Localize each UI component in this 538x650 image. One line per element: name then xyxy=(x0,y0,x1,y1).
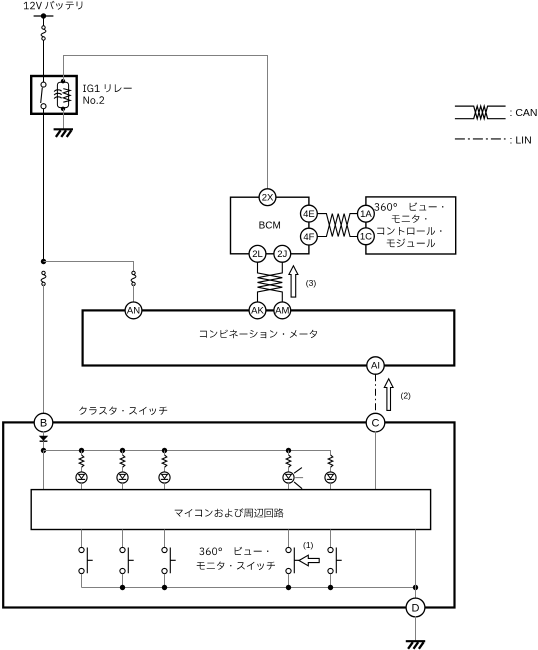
node junction lamp column 3 xyxy=(162,448,167,453)
pin AI xyxy=(367,357,384,374)
wire to B xyxy=(43,284,45,414)
label cluster switch xyxy=(79,407,167,416)
wire relay coil to ground xyxy=(63,109,65,129)
lamp LED2 xyxy=(117,472,128,483)
svg-text:: LIN: : LIN xyxy=(510,134,532,146)
wire to AN xyxy=(133,284,135,302)
wire xyxy=(122,483,124,490)
lamp LED4 (illumination) xyxy=(283,472,294,483)
svg-text:4E: 4E xyxy=(303,209,315,220)
wire B to diode xyxy=(43,431,45,436)
wire microcomputer to D xyxy=(415,530,417,599)
node bus junction xyxy=(120,585,125,590)
node bus junction xyxy=(328,585,333,590)
legend CAN twisted pair symbol xyxy=(455,106,506,119)
label combination meter xyxy=(200,330,317,339)
ground (cluster switch) xyxy=(406,640,425,642)
360 view monitor control module box xyxy=(366,197,456,254)
wire xyxy=(81,483,83,490)
wire LIN AI-C (dash-dot) xyxy=(375,374,377,413)
pin AK xyxy=(249,302,266,319)
wire xyxy=(330,530,332,548)
wire ground bus xyxy=(82,587,416,589)
node junction (feed split) xyxy=(41,259,46,264)
resistor R2 xyxy=(120,455,125,467)
svg-text:1A: 1A xyxy=(360,209,372,220)
wire CAN twisted pair 2J-AM xyxy=(258,262,283,302)
resistor R3 xyxy=(162,455,167,467)
svg-text:2X: 2X xyxy=(262,192,274,203)
arrow (2) xyxy=(384,379,393,411)
node junction lamp column 4 xyxy=(286,448,291,453)
wire xyxy=(164,483,166,490)
arrow (1) xyxy=(299,555,319,566)
wire relay contact down to junction xyxy=(43,114,45,262)
wire xyxy=(288,483,290,490)
wire xyxy=(288,451,290,455)
wire xyxy=(288,530,290,548)
svg-text:4F: 4F xyxy=(303,232,314,243)
microcomputer and peripheral circuit box xyxy=(31,490,430,530)
lamp LED4 light rays xyxy=(294,468,302,474)
diode D1 xyxy=(40,436,48,440)
svg-text:1C: 1C xyxy=(360,232,372,243)
wire xyxy=(81,467,83,472)
wire B column into microcomputer xyxy=(43,451,45,490)
wire CAN twisted pair 4E-1A xyxy=(317,214,357,237)
svg-text:BCM: BCM xyxy=(259,221,281,232)
node bus junction xyxy=(413,585,418,590)
pin AM xyxy=(274,302,291,319)
pin C xyxy=(366,413,385,432)
wire xyxy=(164,451,166,455)
pin D xyxy=(406,598,425,617)
label No.2 xyxy=(84,96,105,104)
pin 2X xyxy=(259,189,276,206)
lamp LED5 xyxy=(325,472,336,483)
wire xyxy=(122,467,124,472)
wire xyxy=(81,530,83,548)
pin B xyxy=(34,413,53,432)
wire CAN twisted pair 2L-AK xyxy=(258,262,283,302)
wire xyxy=(122,451,124,455)
relay contact (switch) xyxy=(43,76,45,82)
cluster switch box xyxy=(3,422,454,607)
wire xyxy=(330,574,332,588)
relay coil with resistor xyxy=(61,79,65,83)
pin 4E xyxy=(301,205,318,222)
lamp LED3 xyxy=(159,472,170,483)
svg-text:(2): (2) xyxy=(401,391,412,401)
ground (relay) xyxy=(54,128,73,130)
pin 1C xyxy=(358,228,375,245)
pin 4F xyxy=(301,228,318,245)
lamp LED1 xyxy=(76,472,87,483)
connector in-line (battery feed) xyxy=(42,26,45,29)
svg-text:B: B xyxy=(40,418,47,430)
wire D to ground xyxy=(415,616,417,641)
wire branch to AN xyxy=(44,262,134,272)
relay IG1 No.2 box xyxy=(31,76,76,114)
wire CAN twisted pair 4F-1C xyxy=(317,214,357,237)
label 360 view monitor control module xyxy=(374,202,443,210)
svg-text:2L: 2L xyxy=(252,249,263,260)
pin 1A xyxy=(358,205,375,222)
resistor R1 xyxy=(79,455,84,467)
wire relay coil to BCM 2X xyxy=(64,56,268,189)
label IG1 relay xyxy=(83,84,132,92)
svg-text:AK: AK xyxy=(251,306,264,317)
resistor R4 xyxy=(286,455,291,467)
wire xyxy=(164,574,166,588)
wire diode to junction xyxy=(43,441,45,450)
svg-text:AM: AM xyxy=(275,306,289,317)
svg-text:(1): (1) xyxy=(303,540,314,550)
resistor R5 xyxy=(328,455,333,467)
wire xyxy=(330,483,332,490)
svg-text:C: C xyxy=(372,418,380,430)
label 360 view monitor switch xyxy=(199,547,268,555)
pin AN xyxy=(125,302,142,319)
combination meter box xyxy=(83,310,455,365)
node bus junction xyxy=(286,585,291,590)
node 12V battery terminal xyxy=(34,15,54,17)
wire xyxy=(164,530,166,548)
pin 2L xyxy=(249,245,266,262)
svg-text:2J: 2J xyxy=(277,249,287,260)
pin 2J xyxy=(274,245,291,262)
wire xyxy=(164,467,166,472)
wire connector to relay xyxy=(43,40,45,76)
wire xyxy=(122,574,124,588)
legend LIN line xyxy=(455,138,506,140)
svg-text:D: D xyxy=(412,603,420,615)
svg-text:: CAN: : CAN xyxy=(510,107,538,119)
node bus junction xyxy=(162,585,167,590)
wire xyxy=(122,530,124,548)
label 12V battery xyxy=(24,1,83,10)
node junction lamp column 1 xyxy=(79,448,84,453)
svg-text:AI: AI xyxy=(371,361,380,372)
node feed junction xyxy=(41,448,46,453)
wire C column into microcomputer xyxy=(375,431,377,490)
svg-text:AN: AN xyxy=(127,306,140,317)
wire xyxy=(81,451,83,455)
connector in-line (meter feed) xyxy=(132,271,135,274)
wire xyxy=(288,467,290,472)
wire battery to connector xyxy=(43,16,45,26)
wire xyxy=(288,574,290,588)
arrow (3) xyxy=(289,266,298,297)
connector in-line (cluster switch feed) xyxy=(42,271,45,274)
wire xyxy=(81,574,83,588)
label microcomputer and peripheral circuit xyxy=(175,508,284,517)
wire xyxy=(330,467,332,472)
wire feed bus to lamps xyxy=(44,451,331,455)
BCM box xyxy=(231,197,309,254)
svg-text:(3): (3) xyxy=(306,278,317,288)
node junction lamp column 2 xyxy=(120,448,125,453)
